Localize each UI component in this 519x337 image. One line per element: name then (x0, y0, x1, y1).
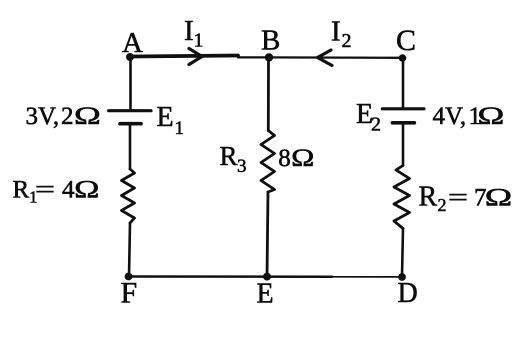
svg-text:3V,: 3V, (26, 103, 60, 130)
svg-text:F: F (121, 277, 138, 310)
svg-text:Ω: Ω (291, 145, 315, 172)
svg-text:B: B (261, 25, 280, 57)
svg-text:1: 1 (194, 30, 204, 52)
svg-text:D: D (398, 278, 418, 309)
svg-text:Ω: Ω (74, 102, 102, 130)
svg-text:Ω: Ω (477, 102, 505, 130)
svg-text:2: 2 (342, 30, 352, 52)
svg-text:C: C (396, 24, 416, 57)
svg-text:8: 8 (278, 145, 291, 172)
svg-text:I: I (184, 15, 194, 47)
svg-text:E: E (257, 279, 274, 310)
svg-text:2: 2 (438, 195, 447, 215)
svg-text:2: 2 (371, 114, 381, 136)
svg-text:A: A (122, 27, 143, 59)
svg-text:=: = (35, 176, 55, 204)
svg-text:Ω: Ω (74, 176, 100, 204)
svg-text:2: 2 (61, 103, 74, 130)
svg-text:Ω: Ω (484, 183, 512, 211)
svg-text:R: R (13, 177, 30, 204)
svg-text:1: 1 (175, 118, 185, 139)
svg-text:I: I (331, 16, 341, 48)
svg-text:E: E (157, 102, 174, 133)
svg-text:3: 3 (237, 156, 247, 177)
svg-text:=: = (448, 184, 468, 212)
svg-text:R: R (419, 182, 438, 213)
svg-text:4V,: 4V, (433, 103, 467, 130)
svg-text:R: R (220, 141, 238, 171)
